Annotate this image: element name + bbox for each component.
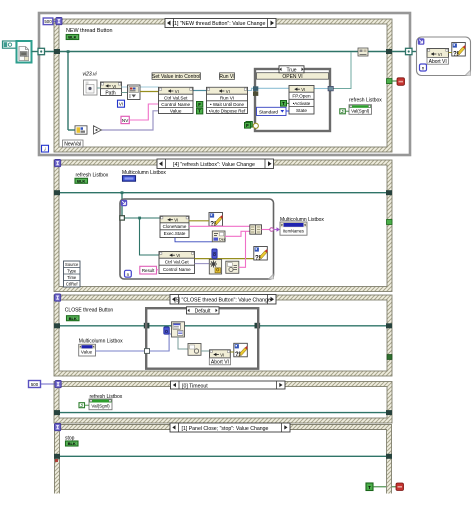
svg-text:True: True <box>286 67 296 73</box>
svg-text:Default: Default <box>195 309 211 315</box>
svg-text:ItemNames: ItemNames <box>283 229 304 234</box>
svg-text:n: n <box>422 66 425 71</box>
svg-text:NEW thread Button: NEW thread Button <box>66 28 112 34</box>
svg-text:• Wait Until Done: • Wait Until Done <box>210 102 244 107</box>
svg-text:refresh Listbox: refresh Listbox <box>349 98 382 104</box>
svg-text:FP.Open: FP.Open <box>292 94 311 99</box>
svg-text:Result: Result <box>142 268 155 273</box>
svg-text:[4] "refresh Listbox": Value C: [4] "refresh Listbox": Value Change <box>173 162 255 168</box>
svg-text:Ctrl Val.Set: Ctrl Val.Set <box>164 95 188 100</box>
svg-text:Multicolumn Listbox: Multicolumn Listbox <box>79 339 123 345</box>
svg-text:VI: VI <box>119 102 123 107</box>
svg-text:CloneName: CloneName <box>163 224 187 229</box>
svg-text:Value: Value <box>170 109 182 114</box>
svg-text:Run VI: Run VI <box>219 74 234 80</box>
svg-text:n: n <box>127 272 130 277</box>
svg-text:OPEN VI: OPEN VI <box>282 74 302 80</box>
svg-text:CLOSE thread Button: CLOSE thread Button <box>65 308 114 314</box>
svg-text:8: 8 <box>213 252 216 258</box>
svg-text:T: T <box>198 109 201 114</box>
svg-text:Ctrl Val.Get: Ctrl Val.Get <box>165 260 190 265</box>
svg-text:Value: Value <box>81 350 93 355</box>
svg-text:T: T <box>282 101 285 106</box>
svg-text:NewVal: NewVal <box>64 142 81 148</box>
svg-text:Source: Source <box>65 262 79 267</box>
svg-text:Val(Sgnl): Val(Sgnl) <box>91 403 110 408</box>
svg-text:Abort VI: Abort VI <box>211 359 229 365</box>
svg-text:Time: Time <box>67 275 77 280</box>
svg-text:•Activate: •Activate <box>293 101 311 106</box>
svg-text:Path: Path <box>105 90 116 96</box>
svg-text:[1] "NEW thread Button": Value: [1] "NEW thread Button": Value Change <box>173 21 266 27</box>
svg-text:Multicolumn Listbox: Multicolumn Listbox <box>122 170 166 176</box>
svg-text:State: State <box>296 108 307 113</box>
svg-text:Abort VI: Abort VI <box>429 59 447 65</box>
svg-text:Run VI: Run VI <box>220 95 234 100</box>
svg-text:Type: Type <box>67 269 77 274</box>
svg-text:T: T <box>368 485 371 490</box>
svg-text:CtlRef: CtlRef <box>66 282 78 287</box>
svg-text:•Auto Dispose Ref: •Auto Dispose Ref <box>209 109 246 114</box>
svg-text:F: F <box>198 102 201 107</box>
svg-text:Exec.State: Exec.State <box>164 231 186 236</box>
svg-text:Set Value into Control: Set Value into Control <box>152 74 200 80</box>
svg-text:vi23.vi: vi23.vi <box>83 72 98 78</box>
svg-text:Dec: Dec <box>219 238 226 242</box>
svg-text:500: 500 <box>44 19 52 24</box>
svg-text:500: 500 <box>31 382 39 387</box>
svg-text:F: F <box>246 123 249 128</box>
svg-text:NV: NV <box>122 118 129 123</box>
svg-text:[0] Timeout: [0] Timeout <box>182 384 208 390</box>
svg-text:Control Name: Control Name <box>161 102 190 107</box>
svg-text:[1] Panel Close; "stop": Valu: [1] Panel Close; "stop": Value Change <box>182 426 269 432</box>
svg-text:Standard: Standard <box>259 109 278 114</box>
svg-text:Control Name: Control Name <box>163 267 191 272</box>
svg-text:[5] "CLOSE thread Button": Val: [5] "CLOSE thread Button": Value Change <box>174 298 271 304</box>
svg-text:Val(Sgnl): Val(Sgnl) <box>351 108 370 113</box>
svg-text:0: 0 <box>165 329 168 335</box>
